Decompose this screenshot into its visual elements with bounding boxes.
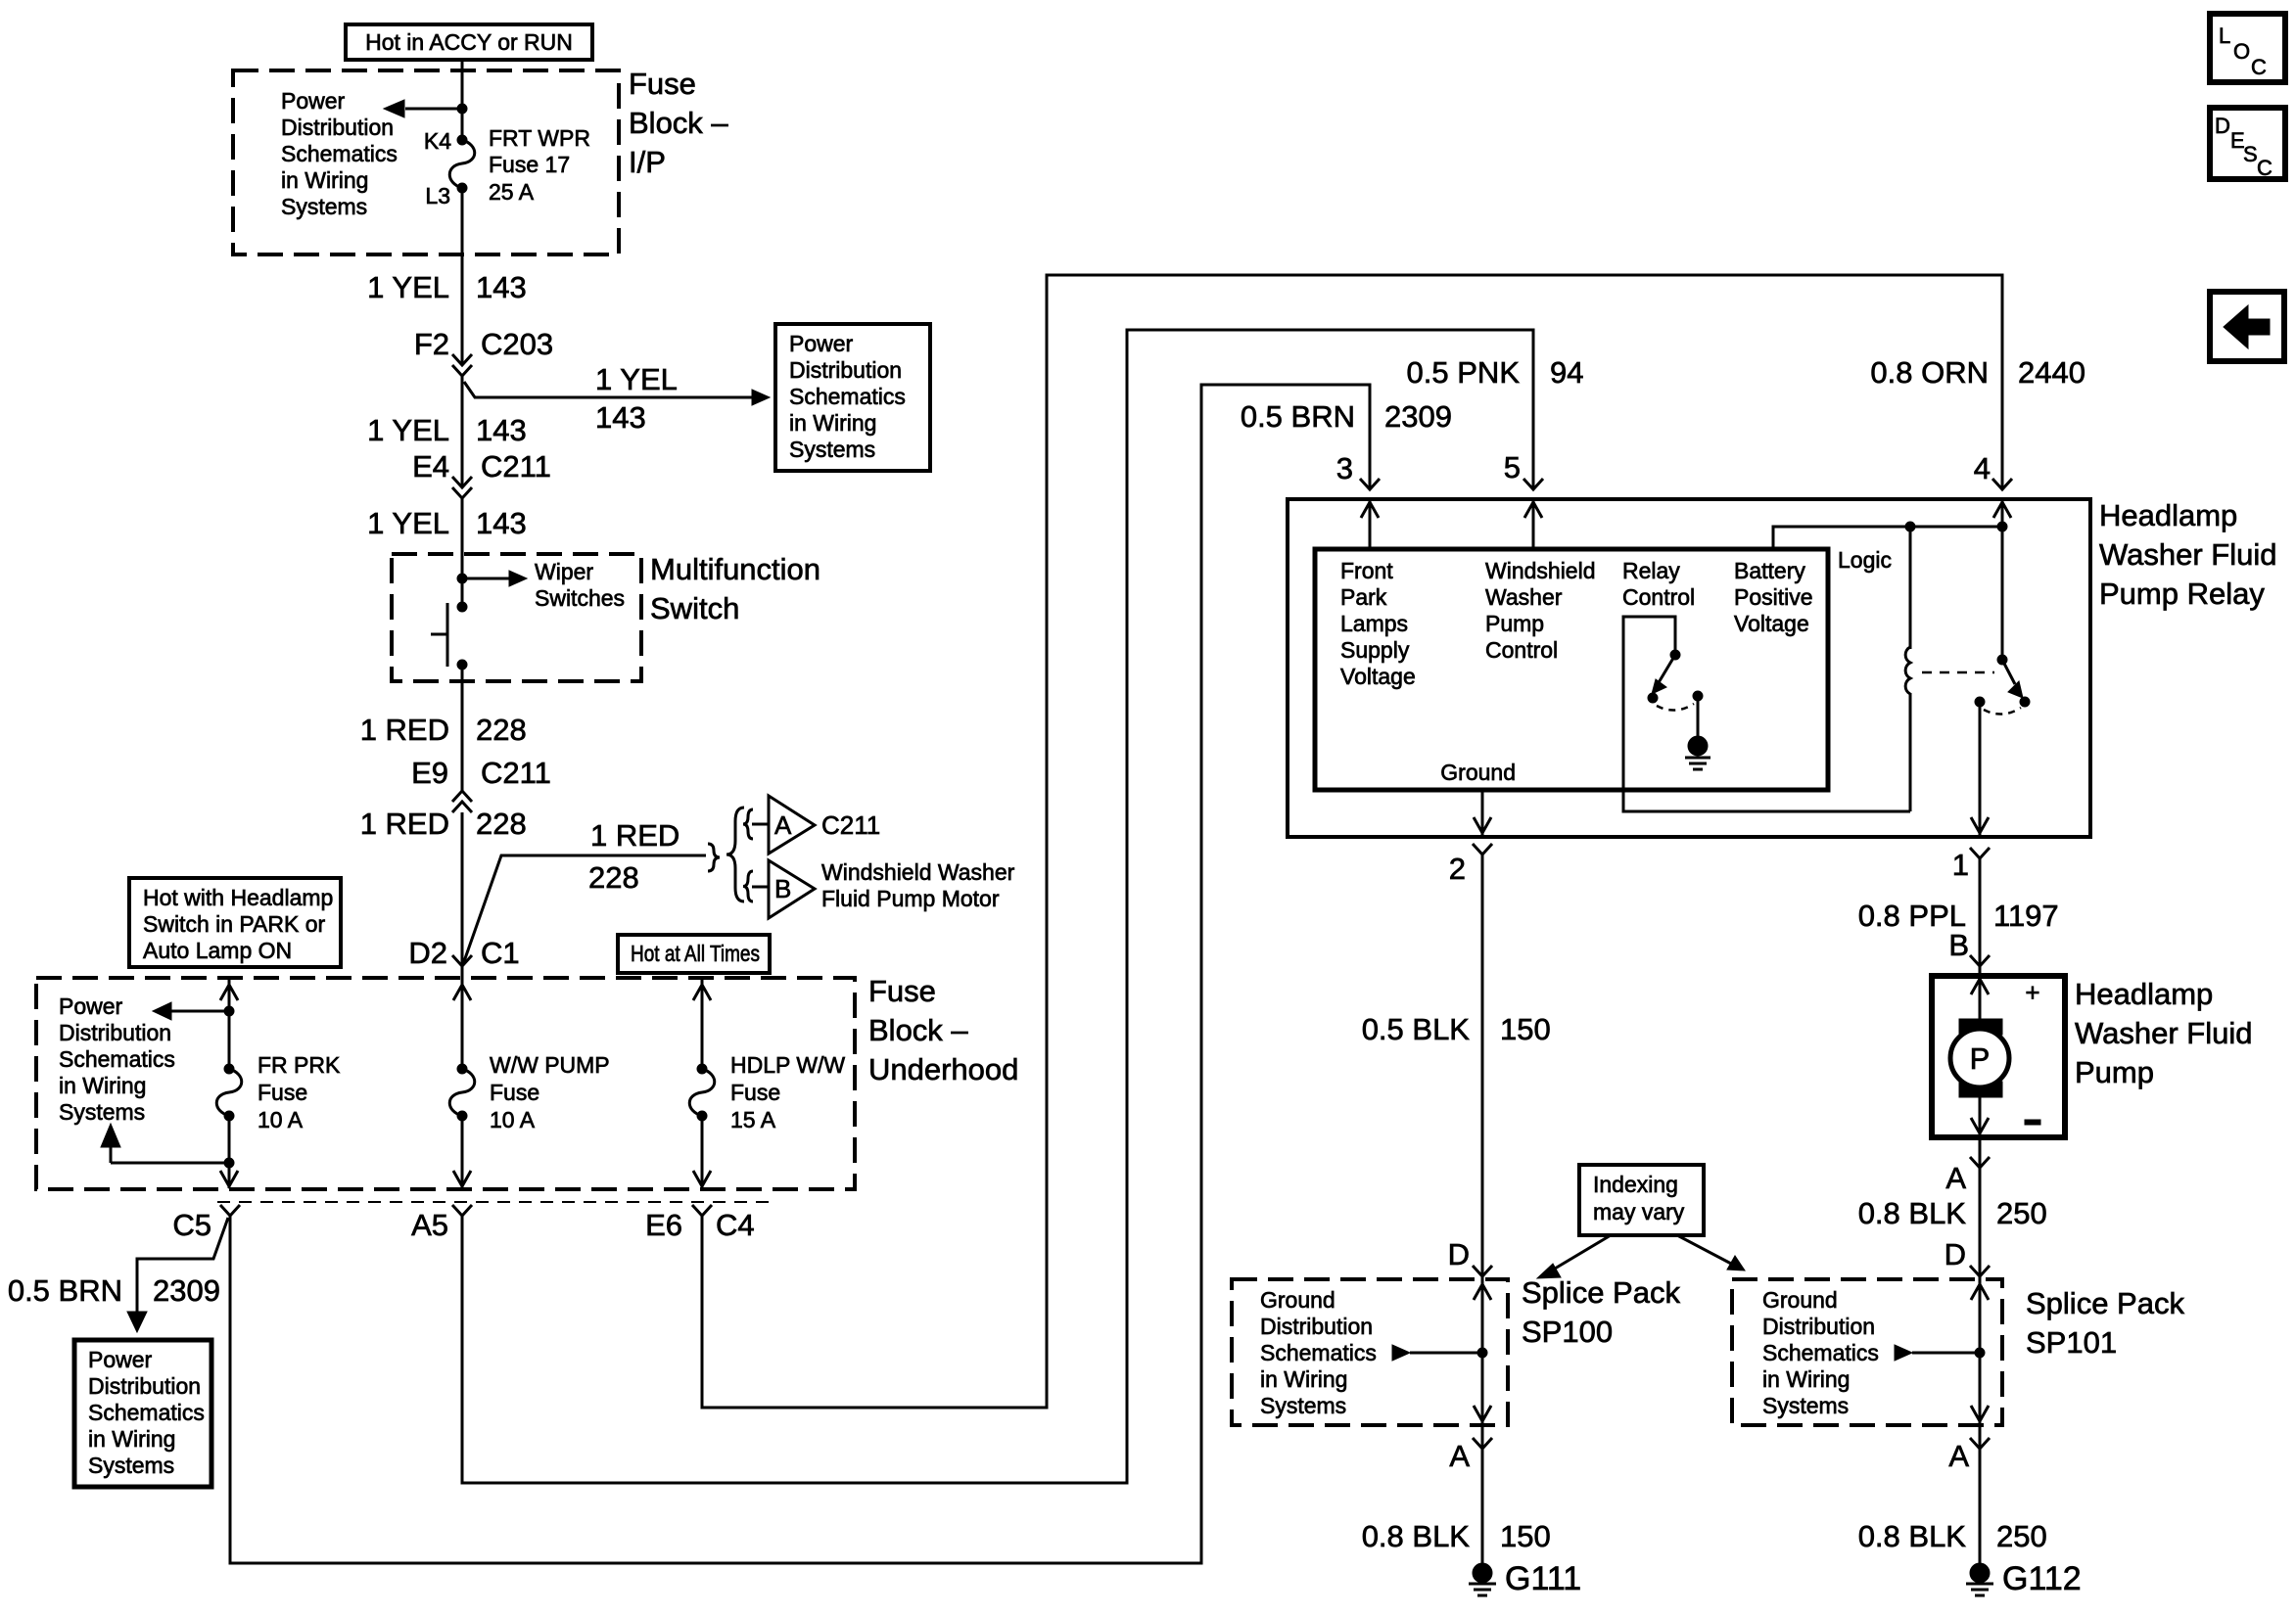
label 0.5 BRN 2309 — [1241, 399, 1452, 434]
svg-text:1 YEL: 1 YEL — [367, 413, 449, 447]
note box Power Distribution Schematics in Wiring Systems (bottom) — [74, 1340, 211, 1487]
svg-text:B: B — [774, 874, 791, 903]
label G112 — [2002, 1560, 2082, 1597]
svg-text:Battery: Battery — [1734, 558, 1805, 583]
svg-text:D2: D2 — [408, 936, 447, 970]
connector chevron B — [1970, 955, 1990, 966]
svg-text:1 RED: 1 RED — [360, 807, 449, 841]
arrow to power distribution schematics (left) — [384, 100, 462, 117]
svg-text:Fuse: Fuse — [730, 1080, 780, 1105]
svg-text:Schematics: Schematics — [59, 1046, 175, 1072]
connector chevron pin 5 — [1523, 479, 1543, 489]
pump motor symbol — [1950, 976, 2009, 1135]
svg-text:Systems: Systems — [1260, 1393, 1346, 1418]
pin L3 label — [425, 183, 450, 208]
label Headlamp Washer Fluid Pump — [2075, 977, 2252, 1089]
label pin 4 — [1974, 451, 1991, 485]
label 0.8 BLK 150 — [1362, 1519, 1551, 1553]
banner Hot with Headlamp Switch in PARK or Auto Lamp ON — [129, 878, 341, 967]
svg-text:150: 150 — [1500, 1519, 1551, 1553]
svg-text:1 RED: 1 RED — [360, 713, 449, 747]
svg-text:SP101: SP101 — [2026, 1325, 2117, 1360]
wire 0.5 BRN 2309 run from C5 to relay pin 3 — [230, 385, 1370, 1563]
label Wiper Switches — [535, 559, 625, 611]
wire below W/W PUMP fuse with exit arrow — [453, 1116, 471, 1188]
label D (SP100) — [1448, 1237, 1470, 1271]
legend box DESC — [2210, 108, 2285, 180]
svg-text:Distribution: Distribution — [1762, 1314, 1875, 1339]
svg-text:S: S — [2243, 142, 2258, 166]
svg-text:2309: 2309 — [153, 1273, 220, 1308]
svg-text:Systems: Systems — [281, 194, 367, 219]
relay main switch — [1975, 655, 2030, 715]
svg-text:FR PRK: FR PRK — [258, 1052, 341, 1078]
svg-text:Distribution: Distribution — [281, 115, 394, 140]
svg-text:Ground: Ground — [1440, 760, 1516, 785]
svg-text:L3: L3 — [425, 183, 450, 208]
label 0.8 BLK 250 (lower) — [1858, 1519, 2047, 1553]
label HDLP W/W Fuse 15 A — [730, 1052, 845, 1132]
svg-text:B: B — [1948, 928, 1969, 962]
label 0.5 BLK 150 — [1362, 1012, 1551, 1046]
wire W/W PUMP fuse column with entry arrow — [453, 966, 471, 1069]
relay inner box — [1315, 549, 1828, 790]
note Ground Distribution Schematics in Wiring Systems (SP100) — [1260, 1287, 1377, 1418]
junction node logic/pin4 — [1997, 522, 2007, 531]
svg-text:A: A — [1449, 1439, 1470, 1473]
connector chevron A5 — [452, 1205, 472, 1216]
label 0.5 PNK 94 — [1407, 355, 1584, 390]
label Headlamp Washer Fluid Pump Relay — [2099, 498, 2276, 611]
label Multifunction Switch — [650, 552, 820, 625]
label 0.8 BLK 250 (upper) — [1858, 1196, 2047, 1230]
svg-text:Distribution: Distribution — [1260, 1314, 1373, 1339]
svg-text:in Wiring: in Wiring — [281, 167, 368, 193]
wire 0.8 ORN 2440 run from E6/C4 to relay pin 4 — [702, 275, 2002, 1408]
svg-text:0.5 BLK: 0.5 BLK — [1362, 1012, 1471, 1046]
wire branch 1 RED 228 to washer fluid pump motor — [463, 855, 706, 964]
wire 0.5 PNK 94 run from A5 to relay pin 5 — [462, 330, 1533, 1483]
power feed banner Hot in ACCY or RUN — [346, 24, 592, 60]
svg-text:0.5 BRN: 0.5 BRN — [8, 1273, 122, 1308]
label Relay Control — [1622, 558, 1695, 610]
internal ground symbol (relay control) — [1685, 696, 1710, 769]
dashed mechanical link coil to switch — [1922, 671, 1994, 674]
svg-text:Multifunction: Multifunction — [650, 552, 820, 586]
label Windshield Washer Fluid Pump Motor — [821, 859, 1015, 911]
svg-text:E4: E4 — [412, 449, 449, 484]
svg-text:Pump: Pump — [2075, 1055, 2154, 1089]
svg-text:5: 5 — [1504, 450, 1521, 485]
svg-text:Switches: Switches — [535, 585, 625, 611]
wiper switch contacts and blade — [431, 602, 467, 670]
svg-text:0.5 BRN: 0.5 BRN — [1241, 399, 1355, 434]
svg-text:Auto Lamp ON: Auto Lamp ON — [143, 938, 292, 963]
label 0.8 PPL 1197 — [1858, 899, 2059, 933]
svg-text:Front: Front — [1340, 558, 1393, 583]
label pin 1 — [1952, 848, 1969, 882]
svg-text:Block –: Block – — [629, 106, 728, 140]
svg-text:Indexing: Indexing — [1593, 1172, 1678, 1197]
svg-text:Fuse: Fuse — [258, 1080, 307, 1105]
svg-text:Distribution: Distribution — [789, 357, 902, 383]
label A (below SP101) — [1948, 1439, 1969, 1473]
fuse FRT WPR Fuse 17 25 A symbol — [449, 135, 475, 193]
svg-text:Hot with Headlamp: Hot with Headlamp — [143, 885, 333, 910]
svg-text:143: 143 — [476, 270, 527, 304]
svg-text:143: 143 — [595, 400, 646, 435]
label 1 YEL 143 — [367, 413, 527, 447]
svg-text:C211: C211 — [481, 756, 551, 790]
label pin 5 — [1504, 450, 1521, 485]
svg-text:1: 1 — [1952, 848, 1969, 882]
connector chevron pin 2 — [1473, 844, 1492, 855]
label D2 C1 — [408, 936, 519, 970]
label 1 RED 228 — [360, 713, 527, 747]
label 1 RED 228 on branch — [588, 818, 679, 895]
svg-text:228: 228 — [476, 713, 527, 747]
label G111 — [1505, 1560, 1581, 1597]
wire 1 YEL 143 from C211 to multifunction switch — [461, 498, 464, 607]
svg-text:Voltage: Voltage — [1340, 664, 1416, 689]
svg-text:1 YEL: 1 YEL — [367, 270, 449, 304]
svg-text:Logic: Logic — [1838, 547, 1892, 573]
Headlamp Washer Fluid Pump box — [1932, 976, 2065, 1137]
svg-text:C203: C203 — [481, 327, 553, 361]
pin 3 entry arrow into relay — [1361, 499, 1379, 549]
svg-text:G112: G112 — [2002, 1560, 2082, 1597]
svg-text:Park: Park — [1340, 584, 1387, 610]
svg-text:Headlamp: Headlamp — [2075, 977, 2213, 1011]
label FR PRK Fuse 10 A — [258, 1052, 341, 1132]
svg-text:Fuse: Fuse — [868, 974, 936, 1008]
svg-text:228: 228 — [476, 807, 527, 841]
svg-text:SP100: SP100 — [1522, 1315, 1613, 1349]
connector chevron A (pump out) — [1970, 1157, 1990, 1168]
label 1 YEL 143 — [367, 506, 527, 540]
svg-text:Schematics: Schematics — [88, 1400, 205, 1425]
svg-text:C: C — [2251, 55, 2267, 79]
svg-text:Power: Power — [88, 1347, 153, 1372]
label A (pump out) — [1945, 1161, 1966, 1195]
svg-text:C: C — [2257, 156, 2273, 180]
label Battery Positive Voltage — [1734, 558, 1813, 636]
label A5 — [411, 1208, 448, 1242]
svg-text:Ground: Ground — [1762, 1287, 1838, 1313]
svg-text:L: L — [2219, 23, 2230, 48]
svg-text:Splice Pack: Splice Pack — [1522, 1275, 1680, 1310]
inline connector C203 — [452, 354, 472, 376]
fuse W/W PUMP Fuse 10 A symbol — [449, 1064, 475, 1121]
label A (below SP100) — [1449, 1439, 1470, 1473]
svg-text:Hot at All Times: Hot at All Times — [631, 941, 760, 966]
svg-text:250: 250 — [1996, 1196, 2047, 1230]
wire 1 RED 228 from switch to C211 (E9) — [461, 665, 464, 791]
SP101 splice arrow and junction — [1895, 1345, 1985, 1361]
svg-text:Fuse: Fuse — [629, 67, 696, 101]
fuse HDLP W/W Fuse 15 A symbol — [689, 1064, 715, 1121]
svg-text:Fuse 17: Fuse 17 — [489, 152, 570, 177]
svg-text:Schematics: Schematics — [1762, 1340, 1879, 1365]
fuse FR PRK Fuse 10 A symbol — [216, 1064, 242, 1121]
svg-text:in Wiring: in Wiring — [1762, 1366, 1850, 1392]
svg-text:in Wiring: in Wiring — [789, 410, 876, 436]
svg-text:Washer: Washer — [1485, 584, 1563, 610]
svg-text:1197: 1197 — [1993, 899, 2059, 933]
label Logic — [1838, 547, 1892, 573]
junction node logic/coil — [1905, 522, 1915, 531]
svg-text:A: A — [774, 810, 792, 840]
svg-text:0.8 ORN: 0.8 ORN — [1870, 355, 1989, 390]
svg-text:Systems: Systems — [88, 1453, 174, 1478]
svg-text:in Wiring: in Wiring — [59, 1073, 146, 1098]
connector chevron E6/C4 — [692, 1205, 712, 1216]
svg-text:+: + — [2025, 978, 2039, 1007]
svg-text:4: 4 — [1974, 451, 1991, 485]
svg-text:Schematics: Schematics — [1260, 1340, 1377, 1365]
legend box back-arrow — [2210, 292, 2284, 361]
connector chevron pin 3 — [1360, 479, 1380, 489]
svg-text:Distribution: Distribution — [59, 1020, 171, 1045]
svg-text:25 A: 25 A — [489, 179, 535, 205]
svg-text:0.8 BLK: 0.8 BLK — [1858, 1196, 1967, 1230]
wire below HDLP W/W fuse with exit arrow — [693, 1116, 711, 1188]
svg-text:Underhood: Underhood — [868, 1052, 1018, 1086]
svg-text:2309: 2309 — [1384, 399, 1452, 434]
SP100 entry arrow — [1474, 1284, 1491, 1300]
note box Indexing may vary — [1579, 1165, 1704, 1235]
svg-text:2440: 2440 — [2018, 355, 2085, 390]
svg-text:Fuse: Fuse — [490, 1080, 539, 1105]
svg-text:10 A: 10 A — [258, 1107, 304, 1132]
Fuse Block - Underhood dashed box — [36, 978, 855, 1189]
svg-text:F2: F2 — [414, 327, 449, 361]
svg-text:15 A: 15 A — [730, 1107, 776, 1132]
svg-text:C211: C211 — [821, 810, 880, 840]
pump polarity + label — [2025, 978, 2039, 1007]
svg-text:W/W PUMP: W/W PUMP — [490, 1052, 610, 1078]
wire 0.5 BRN 2309 branch to power distribution — [127, 1218, 228, 1332]
label pin 3 — [1336, 451, 1353, 485]
svg-text:1 RED: 1 RED — [590, 818, 679, 853]
wire 0.5 BLK 150 pin2 to SP100 — [1481, 855, 1484, 1563]
pin K4 label — [424, 128, 451, 154]
svg-text:I/P: I/P — [629, 145, 666, 179]
ground G111 symbol — [1469, 1563, 1496, 1595]
svg-text:Distribution: Distribution — [88, 1373, 201, 1399]
note Power Distribution Schematics in Wiring Systems (underhood) — [59, 993, 175, 1125]
connector chevron D (SP100) — [1473, 1266, 1492, 1276]
SP100 exit arrow — [1474, 1406, 1491, 1421]
label Ground (pin 2) — [1440, 760, 1516, 785]
label 1 YEL 143 on branch — [595, 362, 678, 435]
connector D2/C1 chevron — [452, 955, 472, 966]
svg-text:228: 228 — [588, 860, 639, 895]
connector chevron A (below SP101) — [1970, 1438, 1990, 1449]
svg-text:94: 94 — [1550, 355, 1583, 390]
wire HDLP W/W fuse column with entry arrow — [693, 980, 711, 1069]
pin 4 entry arrow and wire to switch — [1993, 499, 2011, 660]
label Front Park Lamps Supply Voltage — [1340, 558, 1416, 689]
wire 0.8 BLK 250 pump to SP101 — [1979, 1137, 1982, 1563]
svg-text:Schematics: Schematics — [789, 384, 906, 409]
arrow to power distribution (left) — [153, 1002, 229, 1020]
svg-text:Voltage: Voltage — [1734, 611, 1809, 636]
junction node and arrow to Wiper Switches — [457, 571, 527, 586]
svg-text:may vary: may vary — [1593, 1199, 1685, 1224]
label D (SP101) — [1945, 1237, 1966, 1271]
svg-text:K4: K4 — [424, 128, 451, 154]
inline connector C211 (E9) — [452, 791, 472, 812]
svg-text:1 YEL: 1 YEL — [595, 362, 678, 396]
junction node on feed wire — [457, 104, 467, 114]
label F2 C203 — [414, 327, 553, 361]
SP101 entry arrow — [1971, 1284, 1989, 1300]
svg-text:Relay: Relay — [1622, 558, 1680, 583]
indexing arrow to SP100 — [1537, 1235, 1611, 1278]
splice pack SP101 dashed box — [1732, 1279, 2002, 1425]
connector C4 boundary dashed line — [217, 1201, 773, 1203]
svg-text:Pump: Pump — [1485, 611, 1544, 636]
label B — [1948, 928, 1969, 962]
junction node below FR PRK fuse — [224, 1158, 234, 1168]
svg-text:in Wiring: in Wiring — [88, 1426, 175, 1452]
svg-text:Washer Fluid: Washer Fluid — [2075, 1016, 2252, 1050]
label FRT WPR Fuse 17 25 A — [489, 125, 590, 205]
label 1 YEL 143 — [367, 270, 527, 304]
svg-text:Ground: Ground — [1260, 1287, 1335, 1313]
relay outer box — [1288, 499, 2090, 837]
coil return wire to relay control switch — [1623, 617, 1910, 811]
indexing arrow to SP101 — [1677, 1235, 1745, 1270]
svg-text:0.8 BLK: 0.8 BLK — [1858, 1519, 1967, 1553]
label Fuse Block - Underhood — [868, 974, 1018, 1086]
SP100 splice arrow and junction — [1392, 1345, 1487, 1361]
svg-text:150: 150 — [1500, 1012, 1551, 1046]
splice pack SP100 dashed box — [1232, 1279, 1508, 1425]
svg-text:10 A: 10 A — [490, 1107, 536, 1132]
banner Hot at All Times — [618, 935, 770, 973]
svg-text:G111: G111 — [1505, 1560, 1581, 1597]
Fuse Block - I/P dashed box — [233, 70, 619, 254]
wire from main switch to pin 1 with exit arrow — [1971, 702, 1989, 835]
svg-text:FRT WPR: FRT WPR — [489, 125, 590, 151]
svg-text:0.5 PNK: 0.5 PNK — [1407, 355, 1521, 390]
legend box LOC — [2210, 14, 2285, 82]
label 0.8 ORN 2440 — [1870, 355, 2085, 390]
label E4 C211 — [412, 449, 551, 484]
svg-text:Wiper: Wiper — [535, 559, 593, 584]
svg-text:D: D — [2215, 114, 2230, 138]
connector chevron A (below SP100) — [1473, 1438, 1492, 1449]
svg-text:Pump Relay: Pump Relay — [2099, 577, 2265, 611]
relay control switch — [1648, 650, 1703, 711]
svg-text:Power: Power — [281, 88, 346, 114]
pump polarity - label — [2025, 1120, 2040, 1125]
connector chevron pin 4 — [1992, 479, 2012, 489]
svg-text:143: 143 — [476, 506, 527, 540]
svg-text:P: P — [1970, 1041, 1991, 1076]
svg-text:Washer Fluid: Washer Fluid — [2099, 537, 2276, 572]
label Splice Pack SP100 — [1522, 1275, 1680, 1349]
label Windshield Washer Pump Control — [1485, 558, 1596, 663]
wire 1 YEL 143 from C203 to C211 — [461, 376, 464, 487]
svg-text:O: O — [2233, 39, 2250, 64]
wire below FR PRK fuse with exit arrow — [220, 1116, 238, 1188]
relay coil — [1905, 527, 1910, 811]
note Power Distribution Schematics in Wiring Systems (I/P) — [281, 88, 398, 219]
junction node on FR PRK feed — [224, 1006, 234, 1016]
label pin 2 — [1449, 852, 1466, 886]
label C5 — [172, 1208, 211, 1242]
svg-text:Systems: Systems — [1762, 1393, 1849, 1418]
svg-text:Lamps: Lamps — [1340, 611, 1408, 636]
connector pin A triangle — [769, 796, 815, 854]
svg-text:Windshield: Windshield — [1485, 558, 1596, 583]
note Ground Distribution Schematics in Wiring Systems (SP101) — [1762, 1287, 1879, 1418]
svg-text:250: 250 — [1996, 1519, 2047, 1553]
svg-text:Headlamp: Headlamp — [2099, 498, 2237, 532]
wire 1 RED 228 from C211 to fuse block underhood — [461, 812, 464, 966]
svg-text:2: 2 — [1449, 852, 1466, 886]
wire 0.8 PPL 1197 pin1 to pump — [1979, 858, 1982, 976]
svg-text:Switch in PARK or: Switch in PARK or — [143, 911, 326, 937]
svg-text:A5: A5 — [411, 1208, 448, 1242]
svg-text:143: 143 — [476, 413, 527, 447]
svg-text:Power: Power — [59, 993, 123, 1019]
svg-text:HDLP W/W: HDLP W/W — [730, 1052, 845, 1078]
label W/W PUMP Fuse 10 A — [490, 1052, 610, 1132]
svg-text:C5: C5 — [172, 1208, 211, 1242]
note box Power Distribution Schematics in Wiring Systems (right) — [775, 324, 930, 471]
svg-text:Block –: Block – — [868, 1013, 968, 1047]
svg-text:C211: C211 — [481, 449, 551, 484]
pin 5 entry arrow into relay — [1524, 499, 1542, 549]
svg-text:D: D — [1945, 1237, 1966, 1271]
svg-text:Systems: Systems — [59, 1099, 145, 1125]
svg-text:D: D — [1448, 1237, 1470, 1271]
svg-text:Hot in ACCY or RUN: Hot in ACCY or RUN — [365, 29, 573, 55]
svg-text:Splice Pack: Splice Pack — [2026, 1286, 2184, 1320]
svg-text:Fluid Pump Motor: Fluid Pump Motor — [821, 886, 1000, 911]
svg-text:A: A — [1948, 1439, 1969, 1473]
svg-text:Schematics: Schematics — [281, 141, 398, 166]
Multifunction Switch dashed box — [392, 554, 641, 681]
svg-text:C4: C4 — [716, 1208, 755, 1242]
svg-text:Positive: Positive — [1734, 584, 1813, 610]
connector chevron C5 — [220, 1205, 240, 1216]
svg-text:E6: E6 — [645, 1208, 682, 1242]
label E9 C211 — [411, 756, 551, 790]
return arrow to power distribution schematics — [101, 1124, 229, 1163]
label C211 at pin A — [821, 810, 880, 840]
connector chevron D (SP101) — [1970, 1266, 1990, 1276]
label 0.5 BRN 2309 (branch) — [8, 1273, 220, 1308]
svg-text:Supply: Supply — [1340, 637, 1410, 663]
pin 2 ground wire with exit arrow — [1474, 790, 1491, 835]
label Fuse Block - I/P — [629, 67, 728, 179]
svg-text:Control: Control — [1485, 637, 1558, 663]
wire 1 YEL 143 from fuse block to C203 — [461, 188, 464, 365]
label E6 C4 — [645, 1208, 755, 1242]
svg-text:Power: Power — [789, 331, 854, 356]
svg-text:Switch: Switch — [650, 591, 739, 625]
svg-text:0.8 BLK: 0.8 BLK — [1362, 1519, 1471, 1553]
wire 1 YEL 143 branch to power distribution (right) — [464, 382, 770, 405]
svg-text:3: 3 — [1336, 451, 1353, 485]
inline connector braces at washer pump motor — [708, 808, 768, 901]
wire FR PRK feed with entry arrow — [220, 980, 238, 1069]
